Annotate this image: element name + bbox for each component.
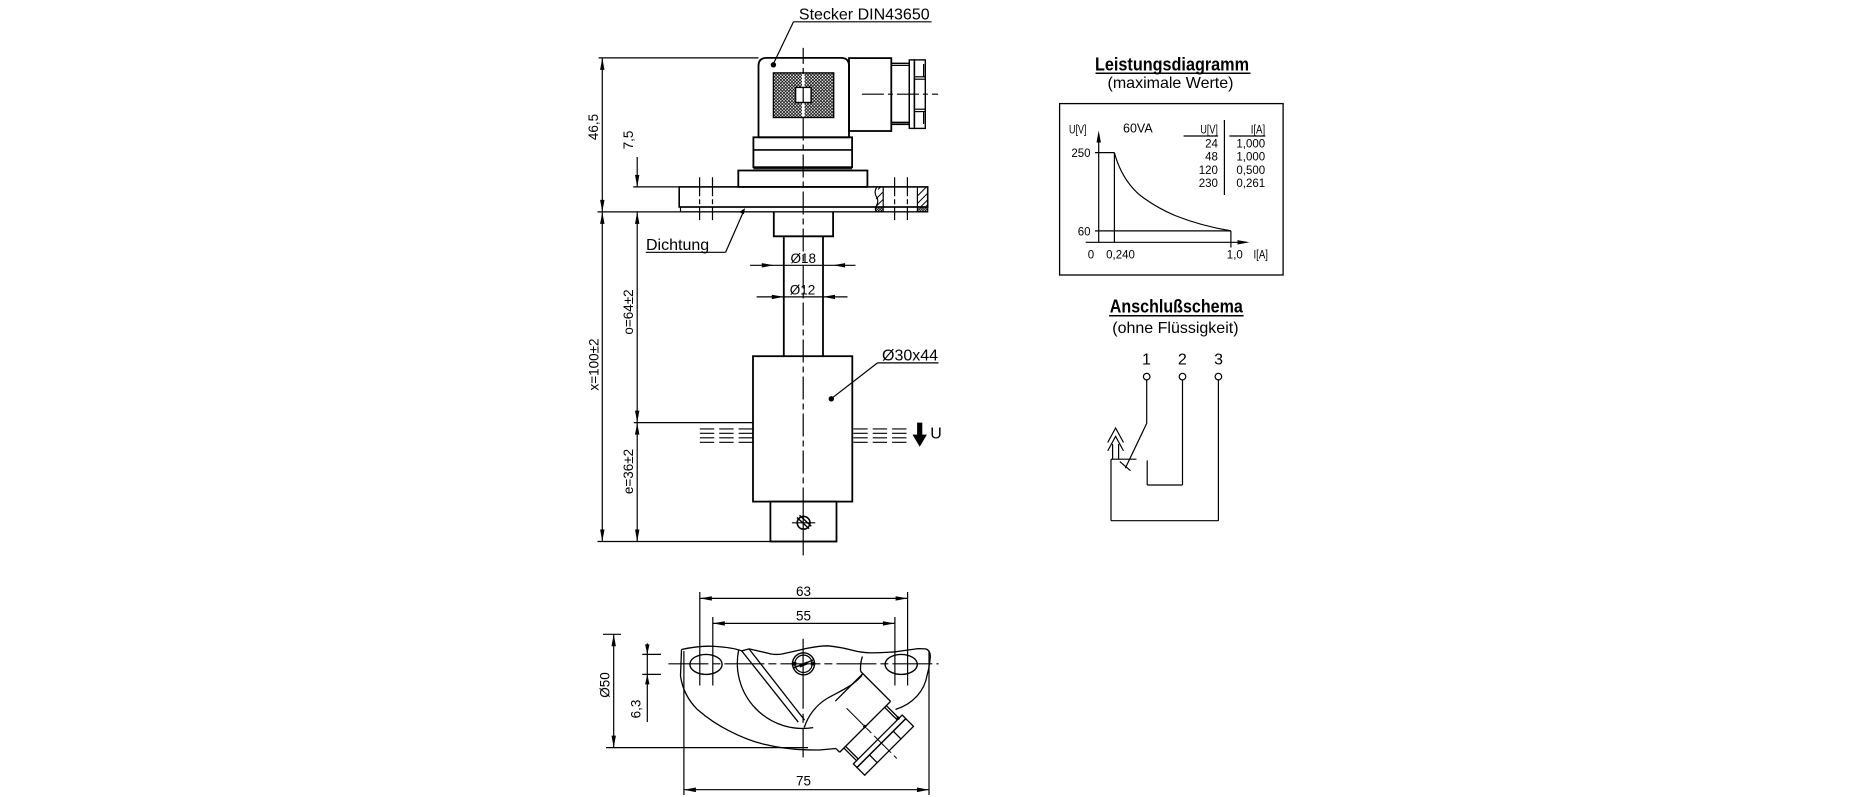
gland nut ring: [909, 60, 914, 128]
circle edge blob left: [792, 662, 797, 666]
gland shoulder edge: [840, 701, 891, 752]
gland end cap: [914, 60, 925, 128]
center hole outer circle: [793, 653, 815, 675]
dim 46,5 arrows: [600, 58, 604, 70]
gland horizontal centerline: [862, 93, 938, 95]
gland 45deg assembly: [810, 672, 922, 784]
center hole slot line: [794, 660, 813, 668]
dim 55 extension right: [894, 617, 896, 686]
terminal circle 1: [1143, 373, 1150, 380]
level arrow chevron 2: [1108, 436, 1124, 451]
svg-text:46,5: 46,5: [586, 114, 601, 140]
svg-text:1,000: 1,000: [1236, 152, 1265, 164]
dim 75 extension left: [683, 651, 685, 795]
svg-text:x=100±2: x=100±2: [586, 338, 601, 390]
right ear slot: [885, 654, 917, 674]
flange section hatch right: [917, 187, 927, 207]
wire 1: [1146, 380, 1148, 424]
svg-text:Ø12: Ø12: [790, 282, 816, 297]
dim 6,3 hole ticks: [642, 653, 661, 655]
svg-text:(ohne Flüssigkeit): (ohne Flüssigkeit): [1112, 320, 1238, 337]
dim D12 arrows: [772, 295, 784, 299]
leader dot: [771, 62, 776, 67]
dim 63 arrows: [700, 596, 712, 600]
label underline: [794, 21, 932, 23]
gasket strip (Dichtung): [681, 207, 928, 212]
extension line top: [599, 57, 759, 59]
0,240 vertical line: [1113, 153, 1115, 243]
flange section hatch mid: [876, 187, 883, 207]
terminal circle 2: [1179, 373, 1186, 380]
leader line to connector: [774, 22, 794, 64]
gland junction dot b: [862, 724, 867, 729]
gland tube start edge: [835, 674, 863, 702]
svg-text:Ø18: Ø18: [791, 251, 817, 266]
dim D50 tick top: [603, 633, 621, 635]
flange body: [679, 187, 928, 207]
dim 6,3 line: [646, 643, 648, 722]
Dichtung leader: [726, 212, 744, 252]
flange top extension to dimension: [633, 186, 679, 188]
stem hole horizontal line: [792, 522, 815, 524]
body outline bottom sweep: [681, 676, 837, 750]
body outline left edge: [681, 650, 682, 677]
svg-text:250: 250: [1071, 148, 1090, 160]
dim line D12: [757, 296, 848, 298]
Dichtung underline: [646, 251, 726, 253]
gland junction dot a: [896, 716, 901, 721]
stem hole slot: [797, 515, 811, 528]
bolt hole line right b: [906, 177, 908, 220]
svg-text:55: 55: [796, 609, 811, 624]
channel line inner: [749, 649, 805, 720]
window center gap: [802, 74, 805, 117]
body outline top edge: [682, 646, 931, 710]
svg-text:0,500: 0,500: [1236, 165, 1265, 177]
gland cap facet lines: [914, 76, 925, 78]
x axis arrow: [1238, 240, 1250, 244]
svg-text:0,261: 0,261: [1236, 178, 1265, 190]
bolt hole line left b: [712, 177, 714, 220]
stem hole circle: [797, 516, 810, 529]
gasket hatch mid: [876, 207, 884, 212]
extension line flange bottom long: [598, 211, 928, 213]
svg-text:63: 63: [796, 584, 811, 599]
level arrow shaft left: [1112, 444, 1114, 459]
inner circle arc: [737, 650, 813, 728]
svg-text:7,5: 7,5: [621, 131, 636, 150]
dim x=100 arrows: [600, 212, 604, 224]
flange hatch mid boundary: [882, 187, 884, 212]
dim 63 line: [700, 597, 908, 599]
svg-text:U[V]: U[V]: [1069, 125, 1087, 137]
gland neck upper double line: [886, 706, 899, 719]
gland nut ring: [853, 715, 905, 767]
level arrow chevron 1: [1108, 428, 1124, 443]
dim 75 arrows: [684, 788, 696, 793]
svg-text:Ø30x44: Ø30x44: [882, 347, 938, 364]
body fillet at gland root: [860, 657, 862, 672]
gland cap tick marks: [923, 64, 925, 77]
svg-text:230: 230: [1199, 178, 1218, 190]
svg-text:1: 1: [1142, 352, 1151, 369]
svg-text:U: U: [930, 426, 942, 443]
gland neck lower double line: [844, 748, 857, 761]
pipe D12: [784, 236, 823, 356]
center hole inner circle: [795, 655, 812, 672]
cup left wall: [1110, 459, 1112, 521]
dim 46,5 line: [601, 58, 603, 212]
dim o=64 line: [636, 212, 638, 423]
cable gland neck: [891, 63, 909, 124]
cable gland body: [849, 58, 891, 131]
svg-text:120: 120: [1199, 165, 1218, 177]
svg-text:Dichtung: Dichtung: [646, 237, 709, 254]
horizontal centerline: [668, 663, 938, 665]
dim 55 extension left: [712, 617, 714, 686]
neck block upper: [753, 137, 852, 167]
switch contact tick: [1120, 462, 1131, 471]
left ear slot: [690, 654, 722, 674]
dim x=100 line: [601, 212, 603, 542]
title underline: [1109, 315, 1244, 317]
svg-text:Ø50: Ø50: [598, 672, 613, 698]
dim 6,3 arrows: [645, 644, 649, 654]
cylinder body D30x44: [753, 356, 852, 501]
extension line bottom: [598, 541, 838, 543]
centerline through stem: [802, 505, 804, 555]
svg-text:6,3: 6,3: [629, 700, 644, 719]
svg-text:0: 0: [1088, 249, 1094, 261]
neck wide step: [738, 171, 867, 187]
inner contact bottom: [1147, 484, 1182, 486]
stem block: [770, 502, 836, 542]
svg-text:0,240: 0,240: [1106, 249, 1135, 261]
60 level line: [1095, 230, 1231, 232]
1,0 vertical tick: [1230, 231, 1232, 248]
wire 2: [1182, 380, 1184, 485]
cup bottom wire: [1111, 520, 1218, 522]
svg-text:24: 24: [1205, 139, 1218, 151]
gland centerline: [847, 708, 897, 758]
svg-text:1,000: 1,000: [1236, 139, 1265, 151]
dim 55 line: [713, 622, 895, 624]
U flow arrow: [912, 423, 926, 447]
svg-text:75: 75: [796, 774, 811, 789]
250 level line: [1095, 152, 1114, 154]
dim 7,5 arrow: [635, 175, 639, 187]
liquid level dashes left: [700, 429, 753, 442]
svg-text:1,0: 1,0: [1227, 249, 1243, 261]
svg-text:U[V]: U[V]: [1200, 125, 1218, 137]
extension line mid: [634, 422, 753, 424]
cable gland neck inner lines: [891, 64, 909, 66]
gland cap facet lines: [893, 731, 901, 739]
bolt hole line right a: [894, 177, 896, 220]
x axis: [1086, 241, 1247, 243]
D30x44 underline: [878, 362, 939, 364]
title underline: [1096, 72, 1251, 74]
vertical centerline of device lower: [802, 118, 804, 506]
D30x44 leader: [833, 363, 878, 398]
neck divider line: [753, 149, 852, 151]
y axis arrow: [1097, 131, 1101, 143]
D30x44 leader dot: [829, 396, 834, 401]
Dichtung leader arrow: [739, 208, 745, 214]
connector crosshatched window: [773, 73, 833, 118]
neck thin washer line: [753, 168, 852, 170]
chart border box: [1060, 104, 1284, 275]
terminal circle 3: [1215, 373, 1222, 380]
dim D18 arrows: [762, 263, 774, 267]
switch blade: [1125, 423, 1146, 468]
cup top left line: [1111, 458, 1137, 460]
dim 75 extension right: [928, 651, 930, 795]
svg-text:Anschlußschema: Anschlußschema: [1110, 297, 1244, 317]
circle edge blob right: [811, 662, 815, 665]
svg-text:3: 3: [1214, 352, 1223, 369]
vertical centerline of device upper: [802, 48, 804, 73]
gland cap: [857, 719, 913, 775]
svg-text:(maximale Werte): (maximale Werte): [1108, 75, 1234, 92]
dim D50 bottom extension: [606, 747, 808, 749]
vertical centerline: [802, 639, 804, 758]
svg-text:e=36±2: e=36±2: [621, 449, 636, 494]
power curve: [1114, 153, 1231, 231]
pipe D18: [774, 212, 833, 236]
dim D50 line: [613, 634, 615, 747]
dim 63 extension right: [907, 592, 909, 686]
bolt hole line left a: [699, 177, 701, 220]
dim 63 extension left: [699, 592, 701, 686]
gland tube upper side: [861, 672, 891, 702]
connector body U1: [759, 58, 850, 137]
table header underline left: [1184, 135, 1218, 137]
boss curve around gland root: [804, 676, 862, 728]
table header underline right: [1229, 135, 1265, 137]
svg-text:I[A]: I[A]: [1251, 125, 1266, 137]
svg-text:2: 2: [1178, 352, 1187, 369]
liquid level dashes right: [853, 429, 906, 442]
dim o=64 arrows: [635, 212, 639, 224]
dim line D18: [750, 264, 855, 266]
flange hatch right boundary: [916, 187, 918, 212]
inner square center line: [802, 87, 804, 102]
svg-text:48: 48: [1205, 152, 1218, 164]
channel line outer: [742, 651, 799, 722]
svg-text:I[A]: I[A]: [1254, 249, 1269, 261]
dim 75 line: [684, 789, 929, 791]
dim D50 arrows: [612, 634, 616, 646]
svg-text:Stecker DIN43650: Stecker DIN43650: [799, 6, 930, 23]
gasket hatch right: [917, 207, 927, 212]
svg-text:Leistungsdiagramm: Leistungsdiagramm: [1095, 55, 1249, 75]
table divider vertical: [1223, 120, 1225, 195]
connector inner white square: [796, 87, 812, 102]
svg-text:60VA: 60VA: [1123, 122, 1153, 136]
dim e=36 arrows: [635, 423, 639, 435]
svg-text:60: 60: [1078, 227, 1091, 239]
dim e=36 line: [636, 423, 638, 542]
section break wavy line: [875, 187, 878, 212]
inner contact wall: [1146, 460, 1148, 485]
slot middle thick mark: [800, 663, 808, 666]
dim 7,5 line: [636, 157, 638, 187]
gland tube lower side: [836, 749, 840, 753]
svg-text:o=64±2: o=64±2: [621, 289, 636, 334]
level arrow shaft right: [1118, 444, 1120, 459]
y axis: [1098, 134, 1100, 242]
wire 3: [1217, 380, 1219, 521]
dim 55 arrows: [713, 621, 725, 625]
